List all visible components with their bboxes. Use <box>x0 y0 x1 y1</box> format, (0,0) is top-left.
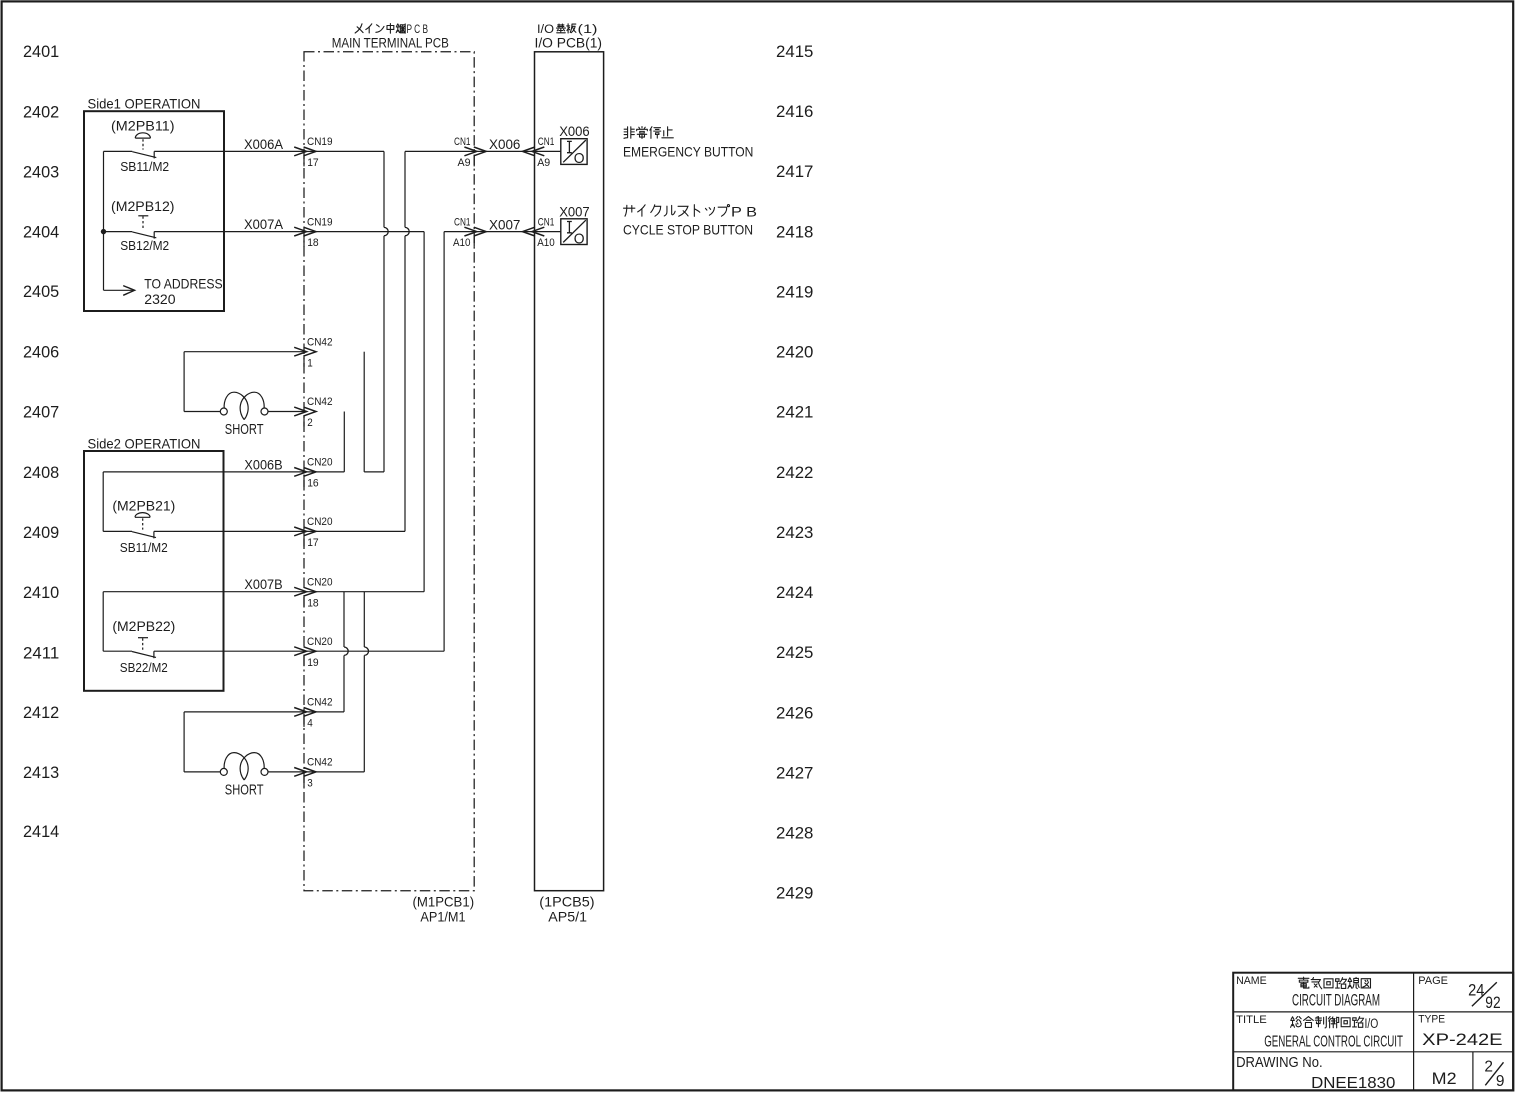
svg-text:2408: 2408 <box>23 464 59 482</box>
svg-text:P B: P B <box>731 205 757 220</box>
connector pin CN1/A9 (main PCB side) <box>464 147 476 156</box>
wire net X006: v4 to I/O PCB input <box>405 150 561 152</box>
wire v7: X007B down to CN42/4 <box>343 592 345 647</box>
wire v2: CN42/1 down to U-link <box>363 352 365 472</box>
svg-text:CN20: CN20 <box>307 516 333 528</box>
wire CN42/1 loop (to SHORT plug) <box>184 351 304 353</box>
svg-text:XP-242E: XP-242E <box>1422 1030 1502 1049</box>
wire CN42/4 loop (to SHORT plug 2) <box>184 711 344 713</box>
switch SB11/M2 (Side2, NC contact) <box>103 530 132 532</box>
svg-text:DRAWING No.: DRAWING No. <box>1236 1055 1323 1071</box>
svg-text:I/O PCB(1): I/O PCB(1) <box>535 36 603 52</box>
connector pin CN20/19 <box>294 647 306 656</box>
svg-text:92: 92 <box>1485 993 1500 1012</box>
switch SB12/M2 (NC contact) <box>104 231 133 233</box>
svg-text:2320: 2320 <box>144 291 175 307</box>
svg-text:2423: 2423 <box>776 524 813 542</box>
wire v6: CN1/A10 feed from CN20/19 <box>443 232 445 652</box>
svg-text:I/O: I/O <box>1365 1016 1379 1031</box>
junction dot at SB12 input <box>101 229 106 234</box>
svg-text:TO ADDRESS: TO ADDRESS <box>144 276 222 292</box>
svg-text:9: 9 <box>1496 1073 1505 1090</box>
svg-text:Side2 OPERATION: Side2 OPERATION <box>88 435 201 451</box>
svg-text:CIRCUIT DIAGRAM: CIRCUIT DIAGRAM <box>1292 991 1380 1010</box>
svg-text:DNEE1830: DNEE1830 <box>1311 1075 1395 1092</box>
svg-text:2424: 2424 <box>776 584 813 602</box>
svg-text:CN19: CN19 <box>307 216 333 228</box>
connector pin CN42/1 <box>294 347 306 356</box>
svg-text:CN1: CN1 <box>454 136 471 148</box>
svg-text:CN20: CN20 <box>307 636 333 648</box>
svg-text:2: 2 <box>307 417 313 429</box>
svg-text:(M2PB21): (M2PB21) <box>112 497 175 513</box>
svg-text:CYCLE STOP BUTTON: CYCLE STOP BUTTON <box>623 221 753 237</box>
svg-text:2428: 2428 <box>776 825 813 843</box>
svg-text:SB22/M2: SB22/M2 <box>120 660 168 675</box>
svg-text:2427: 2427 <box>776 764 813 782</box>
svg-text:18: 18 <box>307 237 319 249</box>
wire v3: CN42/2 down to X006B wire <box>343 412 345 472</box>
svg-text:2413: 2413 <box>23 764 59 782</box>
crossover hop v7 over CN20/19 wire <box>344 647 348 655</box>
svg-text:SB11/M2: SB11/M2 <box>120 540 168 555</box>
svg-text:2409: 2409 <box>23 524 59 542</box>
svg-text:X007B: X007B <box>244 576 282 592</box>
svg-text:2425: 2425 <box>776 644 813 662</box>
svg-text:2405: 2405 <box>23 283 59 301</box>
svg-text:2406: 2406 <box>23 344 59 362</box>
svg-text:CN20: CN20 <box>307 576 333 588</box>
connector pin CN20/18 <box>294 587 306 596</box>
svg-text:A10: A10 <box>453 237 471 249</box>
label MAIN TERMINAL PCB (CJK + latin) <box>355 24 363 33</box>
svg-text:17: 17 <box>307 537 319 549</box>
svg-text:CN42: CN42 <box>307 336 333 348</box>
connector pin CN1/A10 (I/O PCB side) <box>532 227 544 236</box>
label cycle stop button (CJK + latin) <box>623 205 634 216</box>
wire v8: X007B down to CN42/3 <box>363 592 365 647</box>
wire + arrow TO ADDRESS 2320 <box>104 289 134 291</box>
SHORT plug (CN42 1-2) <box>184 411 220 413</box>
svg-text:CN42: CN42 <box>307 697 333 709</box>
svg-text:GENERAL CONTROL CIRCUIT: GENERAL CONTROL CIRCUIT <box>1264 1034 1403 1051</box>
svg-text:I/O: I/O <box>537 24 554 36</box>
svg-text:2: 2 <box>1484 1059 1493 1076</box>
Side2 OPERATION enclosure box <box>84 451 224 691</box>
wire v5: X007A down to X007B wire <box>423 232 425 592</box>
Side1 OPERATION enclosure box <box>84 111 224 311</box>
svg-text:TYPE: TYPE <box>1418 1013 1445 1025</box>
connector pin CN19/17 <box>294 147 306 156</box>
svg-text:2421: 2421 <box>776 404 813 422</box>
svg-text:CN1: CN1 <box>538 136 555 148</box>
svg-text:X007: X007 <box>559 203 590 219</box>
connector pin CN42/4 <box>294 708 306 717</box>
svg-text:16: 16 <box>307 478 319 490</box>
wire X007A: SB12 to CN19 pin18 and to routing v5 <box>154 231 424 233</box>
svg-text:2404: 2404 <box>23 224 59 242</box>
svg-text:2418: 2418 <box>776 223 813 241</box>
svg-text:2420: 2420 <box>776 344 813 362</box>
wire v1: X006A down to U-link <box>383 151 385 227</box>
wire SB11(Side2) to CN20 pin17 and to v4 <box>154 530 405 532</box>
svg-text:EMERGENCY BUTTON: EMERGENCY BUTTON <box>623 143 753 159</box>
svg-text:18: 18 <box>307 597 319 609</box>
wire SB22 to CN20 pin19 and to v6 corner <box>154 650 444 652</box>
svg-text:CN42: CN42 <box>307 396 333 408</box>
svg-text:O: O <box>574 230 585 247</box>
svg-text:(M2PB11): (M2PB11) <box>111 118 175 134</box>
svg-text:SB12/M2: SB12/M2 <box>120 238 169 253</box>
connector pin CN42/3 <box>294 768 306 777</box>
title block table <box>1233 973 1513 1091</box>
svg-text:2407: 2407 <box>23 403 59 421</box>
svg-text:NAME: NAME <box>1236 975 1267 987</box>
svg-text:X007: X007 <box>489 216 521 232</box>
svg-text:MAIN TERMINAL PCB: MAIN TERMINAL PCB <box>332 36 449 52</box>
svg-text:(M2PB22): (M2PB22) <box>112 618 175 634</box>
svg-text:Side1 OPERATION: Side1 OPERATION <box>88 96 201 112</box>
svg-text:SB11/M2: SB11/M2 <box>120 159 169 174</box>
svg-text:2416: 2416 <box>776 103 813 121</box>
svg-text:A9: A9 <box>458 157 471 169</box>
svg-text:CN1: CN1 <box>538 216 555 228</box>
svg-text:2414: 2414 <box>23 823 59 841</box>
main terminal PCB AP1/M1 boundary box (dash-dot) <box>304 52 474 891</box>
svg-text:(1PCB5): (1PCB5) <box>539 893 594 909</box>
svg-text:2403: 2403 <box>23 164 59 182</box>
svg-text:2419: 2419 <box>776 283 813 301</box>
connector pin CN42/2 <box>294 407 306 416</box>
wire net X007: v6 to I/O PCB input <box>444 231 560 233</box>
svg-text:SHORT: SHORT <box>225 781 264 798</box>
wire: Side1 common vertical <box>103 151 105 290</box>
svg-text:1: 1 <box>307 357 313 369</box>
svg-text:4: 4 <box>307 718 313 730</box>
wire X006B: Side2 to CN20 pin16 and to v3 corner <box>103 471 344 473</box>
svg-text:(M1PCB1): (M1PCB1) <box>413 893 475 909</box>
svg-text:X006: X006 <box>489 136 521 152</box>
svg-text:CN42: CN42 <box>307 757 333 769</box>
svg-text:2411: 2411 <box>23 644 59 662</box>
svg-text:TITLE: TITLE <box>1236 1014 1267 1026</box>
svg-text:AP1/M1: AP1/M1 <box>420 908 465 924</box>
svg-text:A10: A10 <box>537 237 555 249</box>
svg-text:2410: 2410 <box>23 584 59 602</box>
label emergency button (CJK + latin) <box>624 127 634 139</box>
svg-text:(1): (1) <box>578 24 598 36</box>
crossover hop v4 over X007A <box>405 227 409 235</box>
svg-text:2426: 2426 <box>776 704 813 722</box>
svg-text:2415: 2415 <box>776 43 813 61</box>
svg-text:2401: 2401 <box>23 43 59 61</box>
wire v4: CN1/A9 feed from CN20/17 <box>404 151 406 227</box>
wire U-link bottom <box>364 471 384 473</box>
wire X006A: SB11 to CN19 pin17 and to routing v1 <box>154 150 384 152</box>
svg-text:X007A: X007A <box>244 216 284 232</box>
svg-text:P C B: P C B <box>407 24 429 36</box>
svg-text:SHORT: SHORT <box>225 421 264 438</box>
svg-text:2422: 2422 <box>776 464 813 482</box>
svg-text:CN19: CN19 <box>307 136 333 148</box>
connector pin CN20/17 <box>294 527 306 536</box>
wire X007B: Side2 to CN20 pin18 and to v5 corner <box>103 591 424 593</box>
svg-text:PAGE: PAGE <box>1418 975 1448 987</box>
crossover hop v1 over X007A <box>384 227 388 235</box>
svg-text:AP5/1: AP5/1 <box>548 908 587 924</box>
connector pin CN19/18 <box>294 227 306 236</box>
svg-text:CN1: CN1 <box>454 216 471 228</box>
switch SB11/M2 (NC contact) <box>104 150 133 152</box>
svg-text:CN20: CN20 <box>307 457 333 469</box>
svg-text:2417: 2417 <box>776 163 813 181</box>
svg-text:X006: X006 <box>559 123 590 139</box>
svg-text:17: 17 <box>307 157 319 169</box>
svg-text:(M2PB12): (M2PB12) <box>111 198 175 214</box>
SHORT plug (CN42 4-3) <box>184 771 220 773</box>
svg-text:A9: A9 <box>537 157 550 169</box>
crossover hop v8 over CN20/19 wire <box>364 647 368 655</box>
svg-text:X006A: X006A <box>244 136 284 152</box>
svg-text:19: 19 <box>307 657 319 669</box>
svg-text:M2: M2 <box>1432 1069 1457 1088</box>
svg-text:2402: 2402 <box>23 103 59 121</box>
svg-text:3: 3 <box>307 778 313 790</box>
connector pin CN1/A10 (main PCB side) <box>464 227 476 236</box>
switch SB22/M2 (NC contact) <box>102 592 104 652</box>
svg-text:X006B: X006B <box>244 456 282 472</box>
connector pin CN1/A9 (I/O PCB side) <box>532 147 544 156</box>
wire X006B from Side2 common <box>102 472 104 532</box>
I/O PCB AP5/1 board box <box>535 52 604 891</box>
svg-text:O: O <box>574 150 585 167</box>
svg-text:2412: 2412 <box>23 704 59 722</box>
svg-text:2429: 2429 <box>776 885 813 903</box>
connector pin CN20/16 <box>294 468 306 477</box>
